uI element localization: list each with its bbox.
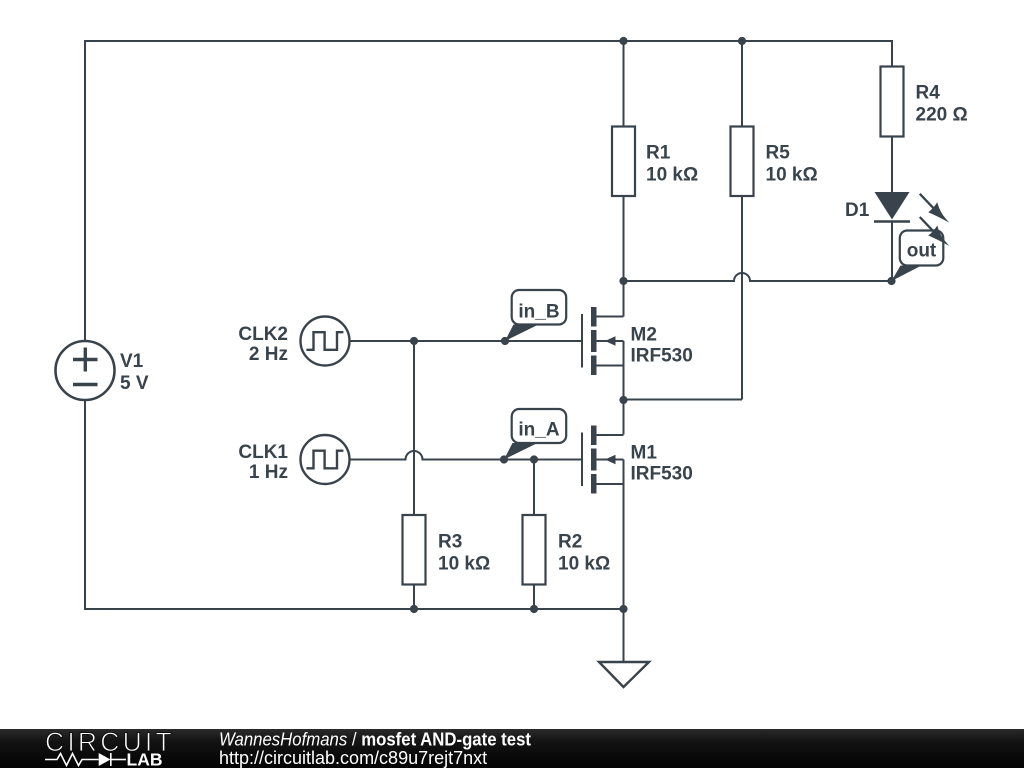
svg-text:10 kΩ: 10 kΩ bbox=[766, 165, 818, 186]
svg-text:CLK2: CLK2 bbox=[238, 324, 288, 345]
svg-text:LAB: LAB bbox=[127, 750, 163, 768]
svg-text:IRF530: IRF530 bbox=[631, 464, 693, 485]
svg-text:R3: R3 bbox=[438, 532, 462, 553]
svg-text:10 kΩ: 10 kΩ bbox=[558, 554, 610, 575]
svg-text:in_B: in_B bbox=[518, 302, 559, 323]
svg-text:M2: M2 bbox=[631, 325, 657, 346]
svg-text:M1: M1 bbox=[631, 443, 658, 464]
svg-text:220 Ω: 220 Ω bbox=[916, 105, 968, 126]
svg-text:10 kΩ: 10 kΩ bbox=[646, 165, 698, 186]
svg-text:IRF530: IRF530 bbox=[631, 346, 693, 367]
svg-text:V1: V1 bbox=[120, 351, 144, 372]
svg-text:2 Hz: 2 Hz bbox=[249, 344, 288, 365]
svg-text:R1: R1 bbox=[646, 143, 671, 164]
svg-text:10 kΩ: 10 kΩ bbox=[438, 554, 490, 575]
svg-text:http://circuitlab.com/c89u7rej: http://circuitlab.com/c89u7rejt7nxt bbox=[219, 748, 487, 768]
svg-text:CLK1: CLK1 bbox=[238, 442, 288, 463]
svg-text:D1: D1 bbox=[845, 200, 870, 221]
svg-text:R4: R4 bbox=[916, 83, 941, 104]
svg-text:in_A: in_A bbox=[518, 420, 559, 441]
svg-text:R5: R5 bbox=[766, 143, 791, 164]
svg-text:1 Hz: 1 Hz bbox=[249, 462, 288, 483]
svg-text:R2: R2 bbox=[558, 532, 582, 553]
svg-text:5 V: 5 V bbox=[120, 373, 149, 394]
svg-text:out: out bbox=[907, 241, 937, 262]
svg-text:WannesHofmans / mosfet AND-gat: WannesHofmans / mosfet AND-gate test bbox=[219, 729, 531, 750]
